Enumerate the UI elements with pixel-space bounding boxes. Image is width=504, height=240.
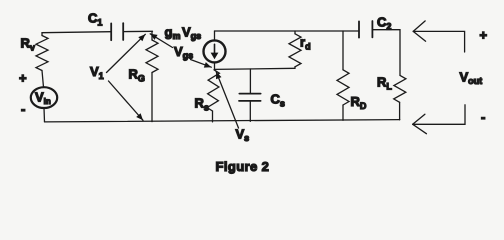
svg-text:Vin: Vin — [35, 90, 51, 106]
capacitor CS — [239, 69, 261, 121]
capacitor C2 — [359, 21, 372, 38]
controlled current source gmVgs — [204, 31, 226, 69]
svg-text:RG: RG — [129, 67, 145, 84]
leader arrow V1 to gate node — [107, 34, 146, 72]
wire source node rail — [215, 68, 296, 69]
leader arrow Vgs to source node — [191, 60, 212, 68]
wire top-left (Rv top to C1) — [42, 32, 111, 33]
output leader bottom — [413, 105, 465, 134]
leader arrow V1 to ground node — [109, 81, 144, 120]
svg-text:Vout: Vout — [460, 70, 483, 87]
svg-text:Vgs: Vgs — [174, 44, 193, 61]
resistor rd — [289, 31, 301, 68]
output leader top — [413, 21, 464, 52]
svg-text:Cs: Cs — [271, 92, 285, 109]
resistor RD — [337, 31, 349, 120]
svg-text:Rs: Rs — [195, 96, 209, 113]
capacitor C1 — [111, 23, 123, 40]
svg-text:Rv: Rv — [21, 36, 35, 53]
wire bottom ground rail — [45, 120, 400, 122]
svg-text:RD: RD — [351, 94, 367, 111]
svg-text:+: + — [19, 71, 27, 86]
wire C1 to gate node — [123, 30, 152, 32]
svg-text:+: + — [480, 28, 488, 43]
leader arrow Vgs to gate node — [150, 34, 172, 48]
wire C2 to RL — [372, 30, 400, 76]
svg-text:V1: V1 — [90, 64, 104, 81]
resistor RL — [394, 75, 406, 119]
svg-text:RL: RL — [377, 75, 392, 92]
svg-text:C2: C2 — [377, 15, 391, 32]
svg-text:-: - — [481, 110, 485, 125]
svg-text:rd: rd — [300, 35, 311, 52]
svg-text:Vs: Vs — [236, 127, 250, 144]
svg-text:Figure 2: Figure 2 — [216, 159, 270, 174]
resistor RG — [146, 31, 158, 121]
leader arrow VS to source node — [216, 72, 238, 128]
resistor RV — [36, 33, 48, 88]
svg-text:C1: C1 — [88, 11, 102, 28]
wire Vin to ground rail — [43, 108, 46, 122]
svg-text:-: - — [21, 102, 25, 117]
resistor RS — [207, 70, 219, 122]
wire drain rail (source top to C2) — [215, 30, 360, 32]
svg-text:gmVgs: gmVgs — [165, 25, 202, 42]
source Vin — [31, 87, 57, 108]
